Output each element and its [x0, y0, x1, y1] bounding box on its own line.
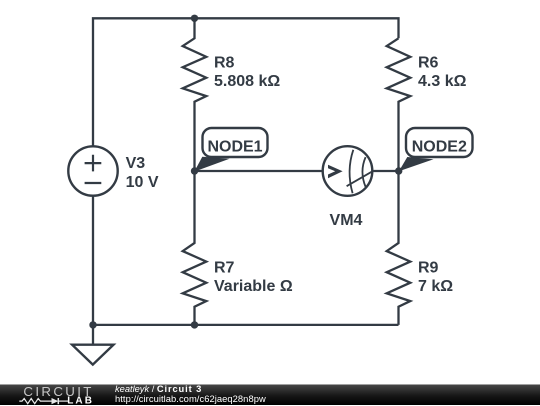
- node NODE2 label box: [406, 128, 473, 157]
- resistor R8: [183, 18, 207, 171]
- junction dot top: [191, 15, 198, 22]
- wire bottom rail: [93, 324, 399, 326]
- wire voltmeter to NODE2: [374, 170, 399, 172]
- svg-text:5.808 kΩ: 5.808 kΩ: [214, 73, 280, 90]
- V3 plus sign: [85, 155, 102, 172]
- wire top-left from V3 to top rail: [93, 18, 195, 146]
- attribution text: [115, 384, 202, 394]
- svg-text:Variable Ω: Variable Ω: [214, 278, 293, 295]
- CircuitLab logo: [0, 385, 110, 406]
- svg-text:NODE1: NODE1: [207, 139, 262, 156]
- node B junction dot NODE2: [395, 167, 402, 174]
- wire V3 bottom lead: [92, 196, 94, 325]
- VM4 meter arc 2: [362, 157, 365, 187]
- svg-text:R8: R8: [214, 54, 235, 71]
- svg-text:R7: R7: [214, 259, 235, 276]
- resistor R7: [183, 171, 207, 325]
- url text: [115, 393, 266, 404]
- resistor R6: [387, 38, 411, 171]
- wire NODE1 to voltmeter: [195, 170, 322, 172]
- V3 minus sign: [85, 182, 102, 184]
- svg-text:R9: R9: [418, 259, 439, 276]
- svg-text:4.3 kΩ: 4.3 kΩ: [418, 73, 467, 90]
- node NODE1 label box: [203, 128, 268, 157]
- svg-text:10 V: 10 V: [126, 174, 159, 191]
- svg-text:V3: V3: [126, 155, 146, 172]
- NODE1 pointer wedge: [194, 157, 229, 172]
- voltmeter VM4 circle: [323, 146, 373, 196]
- VM4 needle: [347, 172, 372, 186]
- svg-text:LAB: LAB: [67, 396, 94, 406]
- ground symbol triangle: [72, 345, 113, 365]
- voltage source V3 circle: [68, 146, 117, 195]
- VM4 meter arc 1: [350, 150, 354, 193]
- junction dot ground: [89, 321, 96, 328]
- node A junction dot NODE1: [191, 167, 198, 174]
- VM4 pointer glyph: [328, 165, 343, 179]
- ground wire stub: [92, 325, 94, 345]
- svg-text:VM4: VM4: [330, 212, 363, 229]
- svg-text:7 kΩ: 7 kΩ: [418, 278, 453, 295]
- svg-text:NODE2: NODE2: [412, 139, 467, 156]
- wire top rail right to R6: [195, 18, 399, 38]
- NODE2 pointer wedge: [399, 157, 434, 171]
- junction dot bottom middle: [191, 321, 198, 328]
- resistor R9: [387, 171, 411, 325]
- svg-text:R6: R6: [418, 54, 439, 71]
